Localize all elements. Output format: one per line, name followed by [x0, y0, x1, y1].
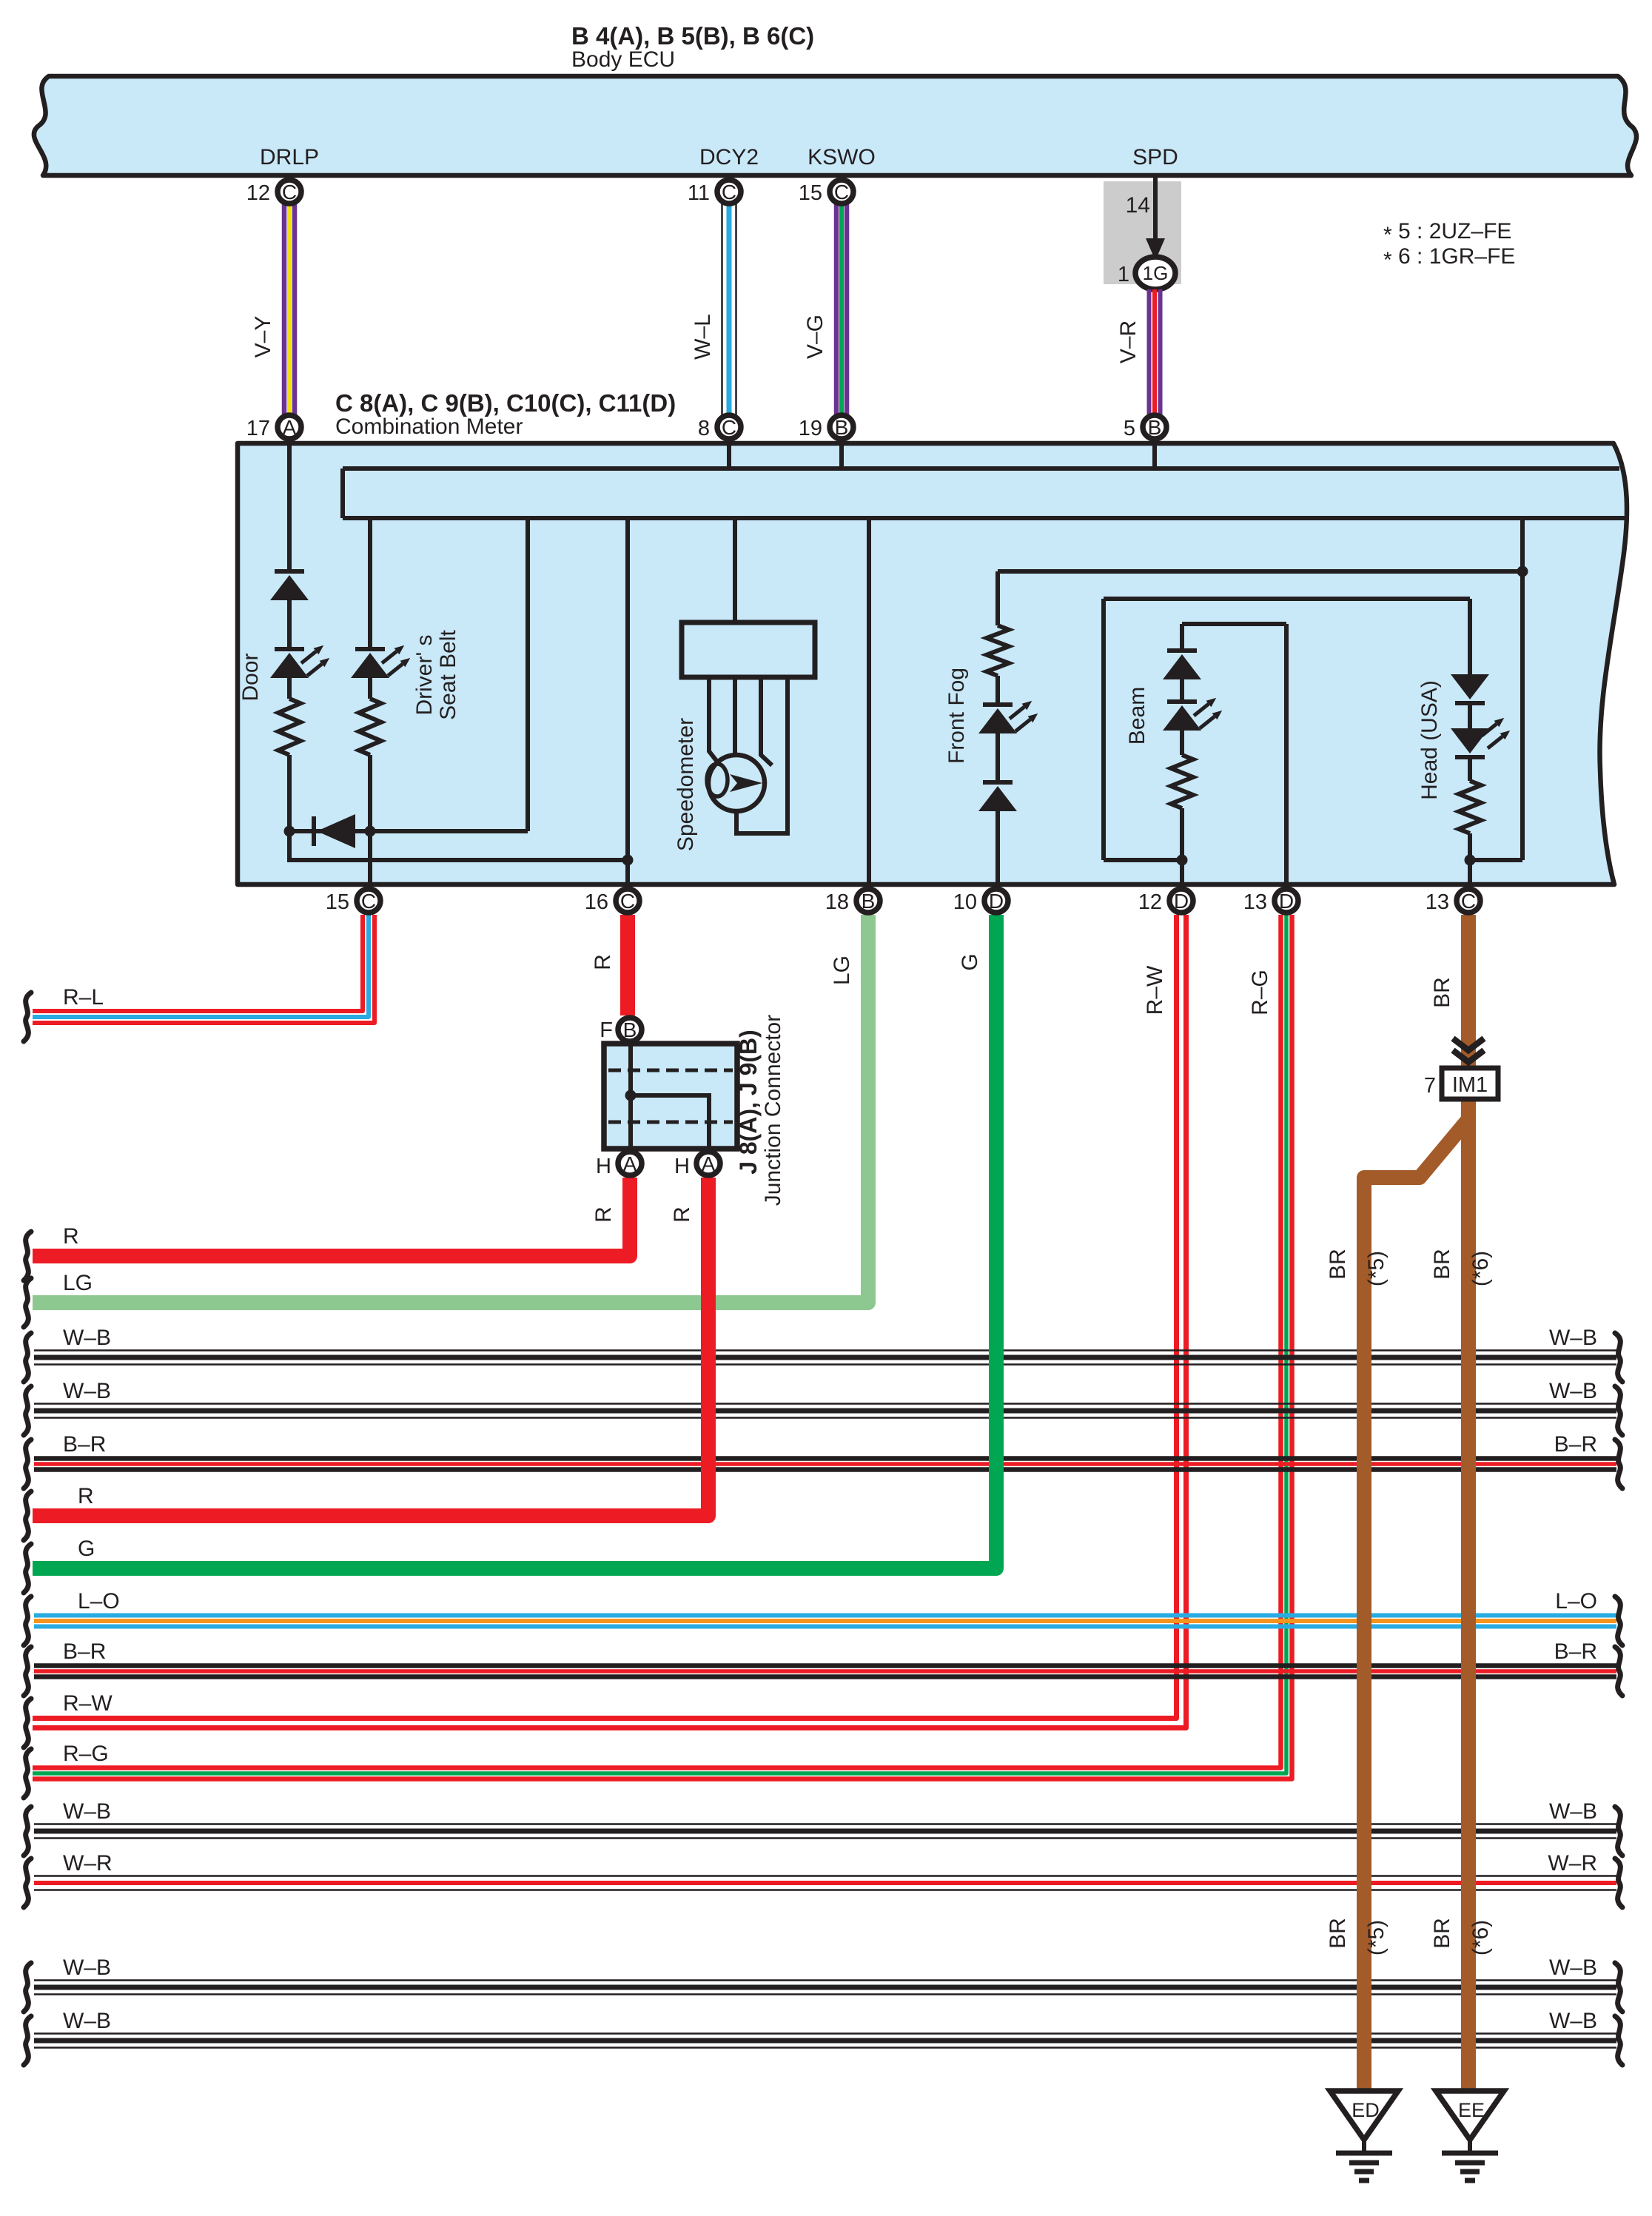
wire 19(B) to bus [839, 443, 844, 469]
svg-text:15: 15 [326, 890, 349, 914]
indicator LED Driver&#39;s Seat Belt [351, 649, 389, 678]
internal bus bar [343, 469, 1627, 518]
svg-text:Head (USA): Head (USA) [1417, 680, 1442, 800]
indicator LED Beam [1163, 702, 1201, 731]
svg-text:* 5 : 2UZ–FE: * 5 : 2UZ–FE [1383, 219, 1511, 247]
wire V-R from 1G to meter 5(B) [1147, 289, 1152, 425]
wire bus drop x713 [526, 518, 530, 831]
wire R from junction H(A) left [33, 1178, 630, 1256]
diode D1 door branch [270, 571, 309, 600]
svg-text:B–R: B–R [1554, 1432, 1597, 1457]
svg-text:V–R: V–R [1116, 320, 1141, 363]
SPD wire with arrow into 1G [1153, 178, 1158, 241]
svg-text:7: 7 [1424, 1074, 1436, 1098]
svg-text:10: 10 [953, 890, 977, 914]
svg-text:W–B: W–B [63, 1955, 111, 1980]
svg-text:W–B: W–B [1549, 1379, 1597, 1403]
wire R-W from 12(D) [33, 915, 1177, 1719]
svg-text:(*5): (*5) [1364, 1251, 1389, 1286]
svg-text:EE: EE [1458, 2099, 1485, 2121]
connector 15(C) KSWO [799, 180, 853, 205]
svg-text:BR: BR [1326, 1249, 1350, 1280]
connector H(A) junction right [696, 1152, 720, 1175]
svg-text:DCY2: DCY2 [699, 145, 759, 169]
svg-text:Beam: Beam [1125, 687, 1149, 745]
svg-text:C: C [722, 181, 736, 204]
svg-text:KSWO: KSWO [807, 145, 876, 169]
svg-text:ED: ED [1352, 2099, 1380, 2121]
svg-text:A: A [702, 1152, 716, 1175]
svg-text:18: 18 [825, 890, 849, 914]
diode front fog [978, 782, 1017, 811]
connector 15(C) meter bottom [326, 889, 380, 914]
svg-text:B–R: B–R [1554, 1639, 1597, 1664]
ground ED [1330, 2091, 1398, 2180]
svg-text:LG: LG [830, 956, 854, 985]
svg-text:J 8(A), J 9(B): J 8(A), J 9(B) [735, 1030, 762, 1175]
svg-text:G: G [78, 1537, 95, 1561]
svg-text:LG: LG [63, 1271, 93, 1295]
svg-text:R–G: R–G [1248, 970, 1272, 1015]
connector 18(B) meter bottom [825, 889, 880, 914]
svg-text:D: D [1279, 890, 1294, 913]
svg-text:W–B: W–B [1549, 1326, 1597, 1350]
svg-text:(*5): (*5) [1364, 1920, 1389, 1955]
svg-text:R: R [63, 1224, 79, 1249]
connector 10(D) meter bottom [953, 889, 1008, 914]
svg-text:W–B: W–B [63, 2009, 111, 2033]
shield connector 1G [1135, 257, 1175, 289]
svg-text:19: 19 [799, 417, 822, 440]
svg-text:* 6 : 1GR–FE: * 6 : 1GR–FE [1383, 244, 1515, 272]
svg-text:A: A [283, 416, 297, 439]
beam inner loop to 13(D) [1182, 624, 1286, 887]
wire L-O horizontal y=2190 [34, 1614, 1616, 1618]
svg-text:5: 5 [1124, 417, 1135, 440]
svg-text:W–B: W–B [1549, 1799, 1597, 1824]
ground EE [1436, 2091, 1504, 2180]
svg-text:W–B: W–B [1549, 2009, 1597, 2033]
svg-text:Combination Meter: Combination Meter [335, 414, 523, 439]
wire W-R horizontal y=2544 [34, 1875, 1616, 1877]
wire bus drop x2057 feed rail [1520, 518, 1525, 860]
svg-text:1: 1 [1118, 263, 1129, 286]
svg-text:R: R [591, 1206, 616, 1223]
connector 19(B) meter [799, 415, 853, 440]
wire seat belt branch from bus [368, 518, 372, 647]
wire W-B horizontal y=2685 [34, 1979, 1616, 1981]
wire 8(C) to bus [727, 443, 731, 469]
shield chevrons above IM1 [1453, 1038, 1484, 1050]
wire W-B horizontal y=1834 [34, 1349, 1616, 1352]
speedometer box [682, 622, 815, 677]
svg-text:13: 13 [1426, 890, 1449, 914]
svg-text:L–O: L–O [78, 1589, 120, 1614]
indicator LED Head [1451, 728, 1489, 757]
svg-text:H: H [596, 1155, 611, 1178]
svg-text:C: C [282, 181, 297, 204]
svg-text:C 8(A), C 9(B), C10(C), C11(D): C 8(A), C 9(B), C10(C), C11(D) [335, 389, 676, 417]
Body ECU box [34, 76, 1636, 175]
svg-text:H: H [674, 1155, 690, 1178]
diode head [1451, 674, 1489, 703]
connector 12(D) meter bottom [1138, 889, 1193, 914]
wire B-R horizontal y=2258 [34, 1663, 1616, 1668]
indicator LED Door [270, 649, 309, 678]
wire 17(A) branch [287, 443, 292, 570]
svg-text:C: C [361, 890, 376, 913]
svg-text:R: R [78, 1484, 94, 1508]
head tie to rail [1470, 858, 1522, 862]
svg-text:IM1: IM1 [1452, 1073, 1488, 1097]
svg-text:15: 15 [799, 181, 822, 205]
svg-text:14: 14 [1126, 193, 1150, 218]
svg-text:R–W: R–W [63, 1691, 113, 1716]
wire bus drop to 16(C) [625, 518, 630, 887]
svg-text:D: D [1174, 890, 1189, 913]
svg-text:8: 8 [698, 417, 710, 440]
svg-text:DRLP: DRLP [260, 145, 319, 169]
svg-text:12: 12 [1138, 890, 1162, 914]
resistor head [1459, 781, 1481, 833]
wire down-left rail [289, 831, 628, 860]
svg-text:Junction Connector: Junction Connector [761, 1015, 785, 1206]
front fog top rail [998, 569, 1522, 574]
svg-text:Front Fog: Front Fog [944, 668, 969, 764]
svg-text:L–O: L–O [1555, 1589, 1597, 1614]
svg-text:R: R [591, 954, 615, 970]
connector 13(D) meter bottom [1243, 889, 1298, 914]
svg-text:Door: Door [238, 653, 263, 701]
connector 12(C) DRLP [246, 180, 301, 205]
wire BR main from 13(C) [1461, 915, 1476, 2091]
wire V-Y from DRLP 12(C) to meter 17(A) [282, 194, 287, 425]
svg-text:13: 13 [1243, 890, 1267, 914]
svg-text:(*6): (*6) [1468, 1920, 1493, 1955]
junction connector internal bus [628, 1044, 633, 1149]
resistor door branch [278, 699, 300, 755]
wire W-B horizontal y=2757 [34, 2032, 1616, 2035]
horizontal tie line with diode [289, 829, 528, 833]
wire R-G from 13(D) [33, 915, 1281, 1768]
svg-text:BR: BR [1326, 1918, 1350, 1949]
svg-text:B: B [623, 1018, 637, 1041]
junction dot rail [1517, 566, 1528, 577]
junction connector J8(A) J9(B) box [604, 1044, 737, 1149]
svg-text:B: B [835, 416, 849, 439]
svg-text:B–R: B–R [63, 1639, 106, 1664]
svg-text:W–B: W–B [63, 1326, 111, 1350]
junction dots on tie line [284, 826, 295, 837]
svg-text:BR: BR [1430, 977, 1454, 1008]
svg-text:G: G [958, 953, 982, 970]
svg-text:C: C [834, 181, 849, 204]
svg-text:Body ECU: Body ECU [571, 47, 675, 72]
svg-text:R: R [670, 1206, 694, 1223]
resistor seat belt branch [359, 699, 381, 755]
wire B-R horizontal y=1978 [34, 1456, 1616, 1461]
connector 8(C) meter [698, 415, 741, 440]
resistor front fog [987, 625, 1009, 676]
connector 5(B) meter [1124, 415, 1166, 440]
svg-text:B–R: B–R [63, 1432, 106, 1457]
svg-text:W–B: W–B [1549, 1955, 1597, 1980]
svg-text:F: F [600, 1018, 613, 1042]
Combination Meter box [238, 443, 1627, 884]
svg-text:B: B [862, 890, 876, 913]
svg-text:W–B: W–B [63, 1379, 111, 1403]
wire R from junction H(A) right [33, 1178, 708, 1516]
gray highlight box at SPD [1104, 181, 1181, 284]
svg-text:BR: BR [1430, 1249, 1454, 1280]
connector 16(C) meter bottom [585, 889, 639, 914]
svg-text:1G: 1G [1143, 262, 1169, 284]
wire 5(B) to bus [1152, 443, 1157, 469]
svg-text:B: B [1148, 416, 1162, 439]
wire V-G from KSWO 15(C) to meter 19(B) [834, 194, 839, 425]
svg-text:R–W: R–W [1143, 965, 1167, 1015]
svg-text:11: 11 [688, 181, 710, 205]
connector 11(C) DCY2 [688, 180, 741, 205]
svg-text:(*6): (*6) [1468, 1251, 1493, 1286]
svg-text:V–G: V–G [803, 315, 827, 359]
speedometer leads [709, 679, 719, 765]
junction dot head [1465, 855, 1476, 866]
wire R from 16(C) to junction F(B) [620, 915, 635, 1015]
diode beam [1180, 624, 1184, 649]
svg-text:16: 16 [585, 890, 608, 914]
svg-text:R–L: R–L [63, 985, 104, 1010]
speedometer gauge circle [708, 755, 765, 811]
svg-text:Driver' s: Driver' s [412, 634, 437, 715]
diode D2 pointing left [312, 816, 316, 846]
junction connector dashed rows [608, 1069, 733, 1072]
svg-text:W–B: W–B [63, 1799, 111, 1824]
wire BR branch (*5) [1364, 1119, 1468, 2091]
resistor beam [1171, 755, 1193, 808]
wire W-B horizontal y=1906 [34, 1403, 1616, 1405]
svg-text:SPD: SPD [1132, 145, 1178, 169]
svg-text:A: A [623, 1152, 637, 1175]
svg-text:12: 12 [246, 181, 270, 205]
svg-text:R–G: R–G [63, 1742, 109, 1766]
connector 13(C) meter bottom [1426, 889, 1480, 914]
svg-text:Seat Belt: Seat Belt [436, 629, 460, 719]
wire R-L from 15(C) [33, 915, 363, 1011]
svg-text:C: C [1461, 890, 1476, 913]
connector 17(A) meter [246, 415, 301, 440]
svg-text:C: C [722, 416, 736, 439]
front fog branch wire [995, 571, 1000, 625]
indicator LED Front Fog [978, 705, 1017, 733]
junction dot 16C rail [622, 855, 634, 866]
svg-text:D: D [989, 890, 1004, 913]
svg-text:Speedometer: Speedometer [674, 718, 698, 851]
speedometer feed [733, 518, 737, 620]
wire W-B horizontal y=2474 [34, 1823, 1616, 1825]
connector H(A) junction left [618, 1152, 642, 1175]
head branch wire [1468, 599, 1472, 674]
svg-text:C: C [620, 890, 635, 913]
connector IM1 pin 7 [1442, 1068, 1498, 1099]
wire bus drop to 18(B) [867, 518, 871, 887]
svg-text:W–R: W–R [1548, 1851, 1597, 1876]
svg-text:B 4(A), B 5(B), B 6(C): B 4(A), B 5(B), B 6(C) [571, 22, 814, 50]
wire G from 10(D) [33, 915, 996, 1568]
svg-text:17: 17 [246, 417, 270, 440]
junction dot beam [1177, 855, 1188, 866]
wire LG from 18(B) [33, 915, 868, 1303]
wire W-L from DCY2 11(C) to meter 8(C) [721, 194, 723, 425]
svg-text:V–Y: V–Y [251, 316, 275, 358]
connector F(B) junction top [618, 1018, 642, 1041]
svg-text:BR: BR [1430, 1918, 1454, 1949]
svg-text:W–R: W–R [63, 1851, 113, 1876]
beam outer loop [1104, 599, 1470, 860]
svg-text:W–L: W–L [691, 314, 715, 360]
